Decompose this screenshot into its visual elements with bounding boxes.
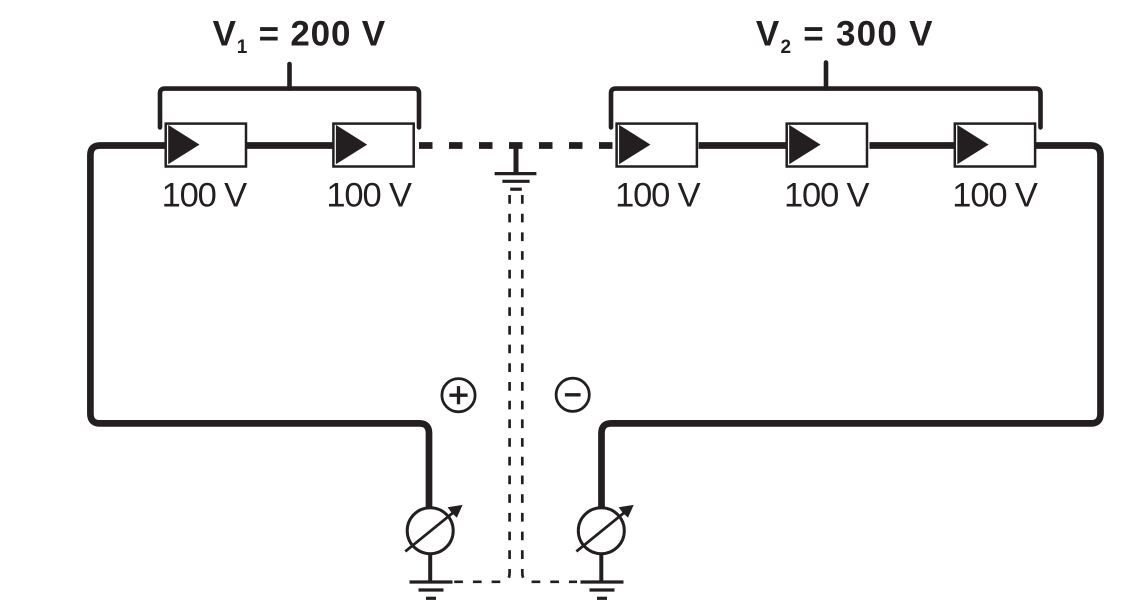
converter valve 2 [333, 124, 413, 167]
bracket over V2 group [611, 63, 1041, 128]
converter valve 4 [787, 124, 867, 167]
converter valve 3 [617, 124, 697, 167]
wire source left to ground [428, 554, 432, 581]
dashed wire between valve 2 and valve 3 [419, 142, 617, 149]
svg-text:100 V: 100 V [326, 176, 412, 214]
wire between valve 4 and valve 5 [870, 142, 955, 149]
ground at midpoint [495, 148, 537, 189]
svg-text:V2 = 300 V: V2 = 300 V [756, 15, 934, 58]
svg-text:100 V: 100 V [952, 176, 1038, 214]
converter valve 1 [166, 124, 246, 167]
converter valve 5 [955, 124, 1035, 167]
bracket over V1 group [160, 64, 419, 127]
wire source right to ground [599, 554, 603, 581]
ground (right source) [581, 582, 624, 598]
svg-text:100 V: 100 V [784, 176, 870, 214]
dashed earth run (right side) [522, 195, 577, 582]
dashed earth run (left side) [453, 195, 510, 582]
svg-text:100 V: 100 V [615, 176, 701, 214]
adjustable source left [405, 505, 462, 554]
plus terminal [442, 379, 475, 412]
adjustable source right [576, 505, 633, 554]
minus terminal [556, 378, 589, 411]
ground (left source) [410, 582, 453, 598]
wire between valve 3 and valve 4 [699, 142, 787, 149]
wire between valve 1 and valve 2 [246, 142, 333, 149]
svg-text:100 V: 100 V [162, 176, 248, 214]
wire right loop [602, 146, 1101, 509]
wire left loop [90, 146, 429, 509]
svg-text:V1 = 200 V: V1 = 200 V [213, 15, 386, 58]
